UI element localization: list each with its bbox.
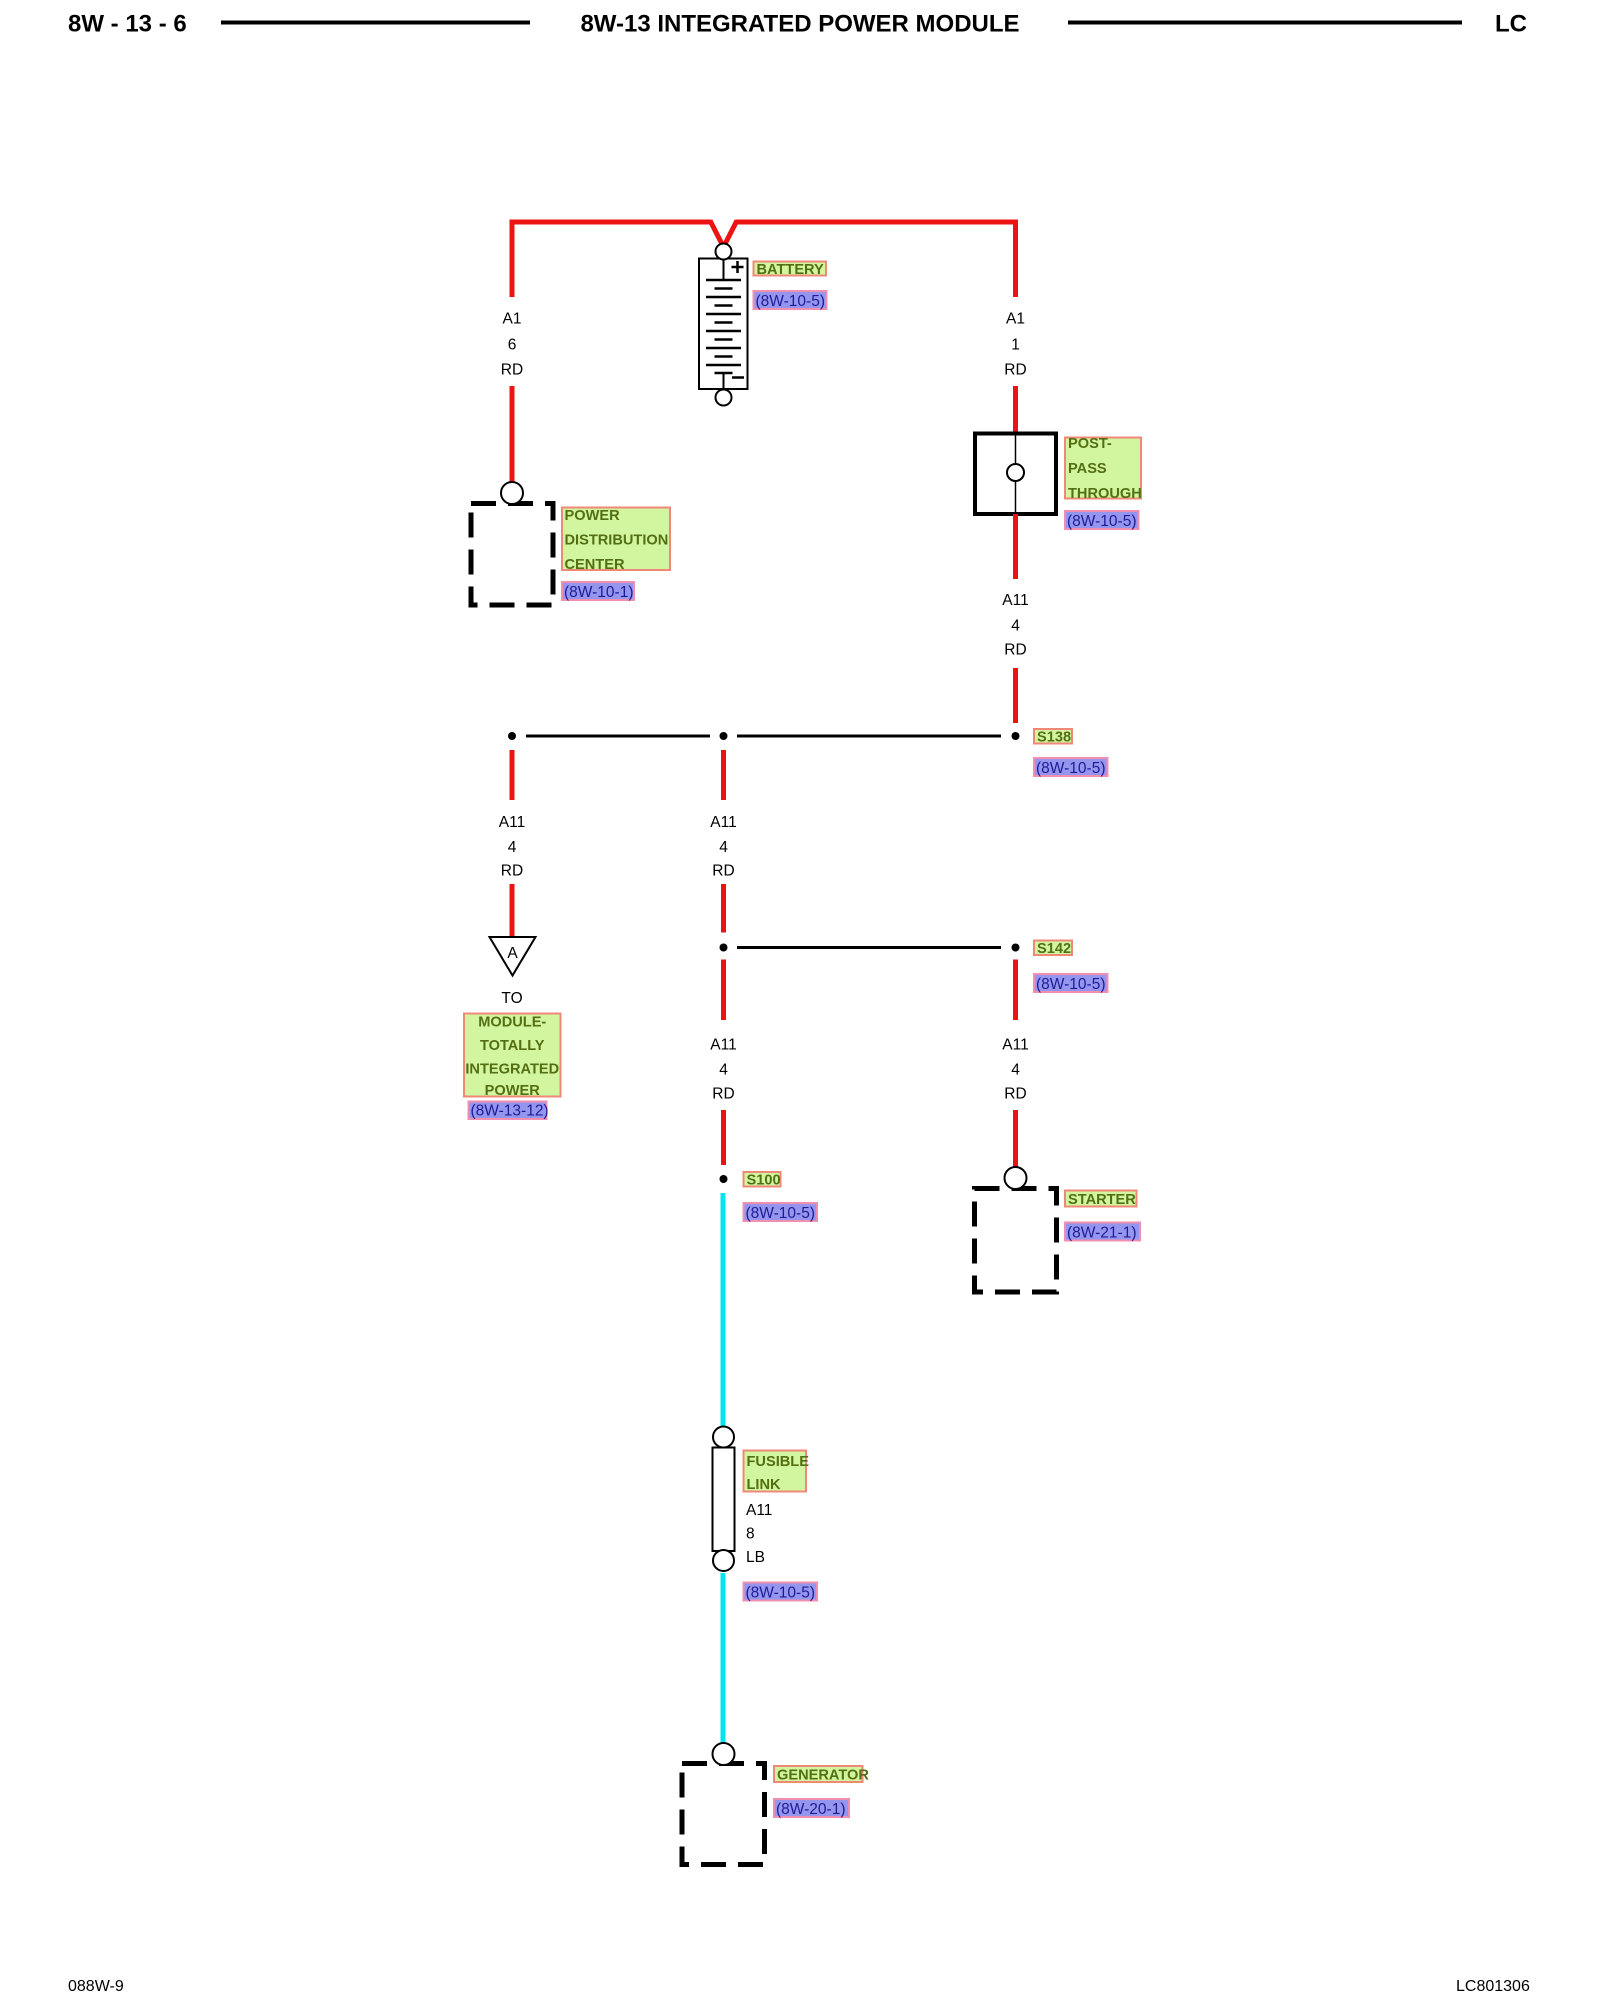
svg-text:RD: RD xyxy=(712,863,734,880)
wire A11 4 RD middle vertical below S142 xyxy=(721,960,726,1021)
svg-text:A: A xyxy=(507,945,518,962)
junction dot splice S138 xyxy=(1012,732,1020,740)
label S100 xyxy=(744,1172,781,1189)
svg-text:DISTRIBUTION: DISTRIBUTION xyxy=(565,533,669,549)
svg-text:STARTER: STARTER xyxy=(1068,1192,1136,1208)
generator dashed box xyxy=(682,1764,765,1865)
svg-text:LINK: LINK xyxy=(747,1477,782,1493)
battery positive terminal connector xyxy=(716,244,732,260)
junction dot splice S100 xyxy=(720,1175,728,1183)
svg-text:A11: A11 xyxy=(499,814,525,831)
svg-text:(8W-21-1): (8W-21-1) xyxy=(1067,1225,1136,1242)
wire A1 6 RD left vertical lower xyxy=(510,386,515,483)
svg-text:RD: RD xyxy=(1004,1086,1026,1103)
wire A11 4 RD middle vertical below S138 xyxy=(721,750,726,800)
fusible link bottom connector xyxy=(713,1550,734,1571)
svg-text:GENERATOR: GENERATOR xyxy=(777,1768,869,1784)
svg-text:A11: A11 xyxy=(746,1502,772,1519)
svg-text:S142: S142 xyxy=(1037,941,1071,957)
svg-text:LB: LB xyxy=(746,1549,765,1566)
wire A11 8 LB cyan vertical lower xyxy=(721,1573,726,1744)
svg-text:S100: S100 xyxy=(747,1173,781,1189)
svg-text:LC801306: LC801306 xyxy=(1456,1978,1530,1995)
wire A11 4 RD left vertical below S138 xyxy=(510,750,515,800)
svg-text:POWER: POWER xyxy=(485,1083,541,1099)
label POWER DISTRIBUTION CENTER xyxy=(562,508,670,574)
label module reference (8W-13-12) xyxy=(469,1102,549,1120)
svg-text:(8W-10-5): (8W-10-5) xyxy=(746,1205,815,1222)
wire A11 4 RD right vertical below S142 xyxy=(1013,960,1018,1021)
label battery reference (8W-10-5) xyxy=(754,291,827,310)
svg-text:(8W-10-5): (8W-10-5) xyxy=(1067,513,1136,530)
fusible link top connector xyxy=(713,1427,734,1448)
wire A11 8 LB cyan vertical upper xyxy=(721,1193,726,1426)
svg-text:RD: RD xyxy=(501,863,523,880)
label FUSIBLE LINK xyxy=(744,1451,810,1494)
label GENERATOR xyxy=(774,1766,869,1784)
svg-text:THROUGH: THROUGH xyxy=(1068,486,1142,502)
connector at power distribution center xyxy=(501,482,523,504)
svg-text:8W - 13 - 6: 8W - 13 - 6 xyxy=(68,11,187,38)
connector at starter xyxy=(1005,1167,1027,1189)
wire V-drop to battery positive terminal xyxy=(710,221,737,248)
svg-text:1: 1 xyxy=(1011,337,1020,354)
svg-text:RD: RD xyxy=(1004,642,1026,659)
header rule left xyxy=(221,21,530,25)
label splice S100 reference (8W-10-5) xyxy=(744,1203,818,1222)
label post-pass through reference (8W-10-5) xyxy=(1065,511,1139,530)
wire A11 4 RD right vertical to splice S138 xyxy=(1013,668,1018,723)
svg-text:TO: TO xyxy=(501,990,522,1007)
off-page arrow A to totally integrated power module xyxy=(490,937,536,976)
label splice S138 reference (8W-10-5) xyxy=(1034,758,1108,777)
wire A1 1 RD right vertical upper xyxy=(1013,220,1018,297)
svg-text:FUSIBLE: FUSIBLE xyxy=(747,1454,810,1470)
label S142 xyxy=(1034,941,1072,958)
wire A1 1 RD top horizontal right of battery xyxy=(736,220,1018,225)
svg-text:4: 4 xyxy=(719,1062,728,1079)
wire A1 6 RD left vertical upper xyxy=(510,220,515,297)
label power distribution center reference (8W-10-1) xyxy=(562,582,634,601)
wire A11 4 RD right vertical to starter xyxy=(1013,1110,1018,1167)
connector at generator xyxy=(713,1743,735,1765)
svg-text:A1: A1 xyxy=(1006,311,1025,328)
svg-text:A1: A1 xyxy=(503,311,522,328)
svg-text:6: 6 xyxy=(508,337,517,354)
node splice S142 bus segment xyxy=(737,946,1001,949)
wire A1 6 RD top horizontal left of battery xyxy=(510,220,712,225)
label POST-PASS THROUGH xyxy=(1065,436,1142,502)
wire A1 1 RD right vertical lower xyxy=(1013,386,1018,434)
svg-text:4: 4 xyxy=(508,839,517,856)
header rule right xyxy=(1068,21,1462,25)
wire A11 4 RD right vertical below post-pass through xyxy=(1013,514,1018,579)
svg-text:CENTER: CENTER xyxy=(565,557,625,573)
svg-text:(8W-10-5): (8W-10-5) xyxy=(1036,760,1105,777)
label STARTER xyxy=(1065,1191,1137,1209)
battery negative terminal connector xyxy=(716,390,732,406)
svg-text:POWER: POWER xyxy=(565,508,621,524)
svg-text:POST-: POST- xyxy=(1068,436,1112,452)
svg-text:TOTALLY: TOTALLY xyxy=(480,1038,545,1054)
power distribution center dashed box xyxy=(471,504,553,606)
label splice S142 reference (8W-10-5) xyxy=(1034,974,1108,993)
node splice S138 bus right segment xyxy=(737,735,1001,738)
svg-text:RD: RD xyxy=(501,362,523,379)
label fusible link reference (8W-10-5) xyxy=(744,1583,818,1602)
svg-text:A11: A11 xyxy=(1002,592,1028,609)
svg-text:(8W-10-5): (8W-10-5) xyxy=(1036,976,1105,993)
node splice S138 bus left segment xyxy=(526,735,710,738)
wire A11 4 RD left vertical to off-page arrow xyxy=(510,884,515,936)
svg-text:A11: A11 xyxy=(1002,1037,1028,1054)
svg-text:(8W-13-12): (8W-13-12) xyxy=(471,1103,549,1120)
svg-text:4: 4 xyxy=(719,839,728,856)
post-pass through component U1 xyxy=(975,434,1056,515)
svg-text:(8W-20-1): (8W-20-1) xyxy=(776,1801,845,1818)
svg-text:4: 4 xyxy=(1011,1062,1020,1079)
starter dashed box xyxy=(975,1189,1057,1293)
junction dot middle at S142 bus xyxy=(720,944,728,952)
battery B1 xyxy=(699,259,748,391)
label S138 xyxy=(1034,729,1072,746)
svg-text:(8W-10-1): (8W-10-1) xyxy=(564,584,633,601)
junction dot left at S138 bus xyxy=(508,732,516,740)
junction dot middle at S138 bus xyxy=(720,732,728,740)
svg-text:LC: LC xyxy=(1495,11,1527,38)
fusible link component xyxy=(713,1448,735,1552)
svg-text:RD: RD xyxy=(1004,362,1026,379)
svg-text:4: 4 xyxy=(1011,618,1020,635)
label BATTERY xyxy=(754,262,827,279)
svg-text:(8W-10-5): (8W-10-5) xyxy=(746,1585,815,1602)
svg-text:S138: S138 xyxy=(1037,730,1071,746)
label starter reference (8W-21-1) xyxy=(1065,1223,1140,1242)
wire A11 4 RD middle vertical to splice S100 xyxy=(721,1110,726,1165)
svg-text:INTEGRATED: INTEGRATED xyxy=(465,1062,559,1078)
svg-text:8: 8 xyxy=(746,1526,755,1543)
svg-text:A11: A11 xyxy=(710,1037,736,1054)
junction dot splice S142 xyxy=(1012,944,1020,952)
svg-text:BATTERY: BATTERY xyxy=(757,262,825,278)
label generator reference (8W-20-1) xyxy=(774,1799,849,1818)
svg-text:A11: A11 xyxy=(710,814,736,831)
svg-text:RD: RD xyxy=(712,1086,734,1103)
svg-text:(8W-10-5): (8W-10-5) xyxy=(756,293,825,310)
svg-text:PASS: PASS xyxy=(1068,461,1107,477)
svg-text:8W-13 INTEGRATED POWER MODULE: 8W-13 INTEGRATED POWER MODULE xyxy=(580,11,1019,38)
label MODULE-TOTALLY INTEGRATED POWER xyxy=(464,1014,561,1100)
wire A11 4 RD middle vertical to splice S142 xyxy=(721,884,726,933)
svg-text:MODULE-: MODULE- xyxy=(478,1015,546,1031)
svg-text:088W-9: 088W-9 xyxy=(68,1978,124,1995)
